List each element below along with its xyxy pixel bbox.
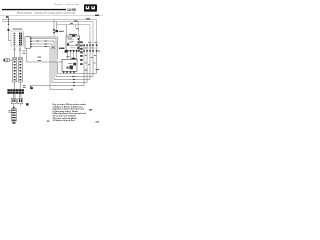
svg-text:Wiring diagram - starting and: Wiring diagram - starting and charging s… [17,12,75,15]
title rule [2,9,66,10]
labels above staircase [71,69,99,71]
connector pins second row [83,50,97,52]
header icon [84,4,97,11]
node junction [13,107,15,108]
wire to battery [14,104,21,109]
ground [12,121,15,124]
right pin field columns [84,44,97,86]
staircase ladder wires [32,74,97,90]
ladder left risers [50,38,58,89]
wire right drop 1 [96,20,98,44]
K1 left pin strip [14,33,16,45]
connector housing bottom right [18,99,23,104]
label mark [26,103,29,105]
label wire colour [74,21,78,22]
wire drop to U1 [78,22,80,36]
label wire colour [70,22,73,25]
connector housing right column [18,60,22,82]
U2 bottom pins [63,71,75,73]
fuse F1 drop wires [54,20,57,37]
label 30 [95,15,99,16]
K1 right pin strip [19,33,22,46]
svg-text:13 Starter relay rd Red: 13 Starter relay rd Red [53,119,76,122]
small labels [23,85,26,88]
wire bus B [2,21,93,23]
U1 pin stubs [68,52,77,59]
legend text block [53,103,87,122]
connector tops [13,57,22,59]
label wire colour [76,28,79,29]
svg-text:Chapter 5 — Electrical Sys: Chapter 5 — Electrical Sys [54,3,79,6]
arrow marks on ladder [71,76,75,91]
header underline [0,14,103,16]
connector pins top row [83,44,97,46]
wire crossover marks [52,46,56,49]
label B+ [86,18,90,19]
label above U1 [69,34,77,35]
legend side marks [89,109,92,110]
connector housing left column [13,60,17,82]
labels mid [38,57,42,61]
label mark faint [47,120,49,122]
U1 bottom pins [67,50,80,52]
ground block mark [30,86,33,90]
label above K1 [13,29,23,30]
wire colour ticks [37,41,48,47]
wire left vertical [9,27,12,41]
label fuse value [59,31,64,32]
connector housing bottom left [11,99,16,104]
wire box feed [66,25,68,36]
U1 right edge pins [80,41,82,65]
C2 wires right [27,37,63,62]
inline connector pair [3,59,13,62]
K1 stubs right [21,34,24,43]
wire bus C [57,24,90,26]
node junction blob [8,29,10,31]
wire right drop 2 [92,22,94,44]
labels right of stubs [23,51,26,54]
wires below band [13,94,21,99]
multi-pin connector band [7,89,24,94]
node battery feed [6,16,9,26]
wire right drop 3 [89,25,91,44]
fuse F1 [53,29,58,33]
relay U2 sub box [62,56,77,71]
wire stub [75,25,77,28]
op-amp U1 main box [65,35,80,53]
battery B1 [9,109,16,122]
K1 bottom stubs and terminals [14,46,21,57]
svg-text:12•55: 12•55 [67,8,76,12]
connector ring junctions [83,47,97,49]
stubs below housings [15,82,21,89]
wire bus A [2,19,97,21]
connector C2 block [25,37,32,49]
labels beside columns [81,42,100,65]
node splice dot [59,48,64,50]
relay K1 dashed box [11,31,24,46]
